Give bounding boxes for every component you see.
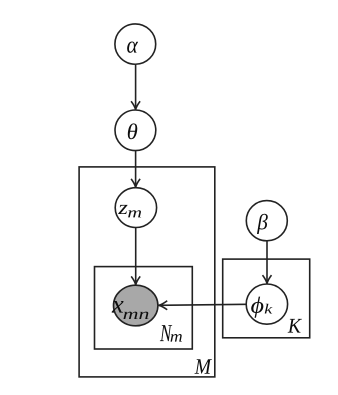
plate M [79, 167, 215, 377]
wire z_m to x_mn [135, 228, 137, 285]
wire alpha to theta [135, 65, 137, 110]
arrowhead into phi_k [263, 275, 272, 283]
node alpha [115, 24, 156, 64]
wire beta to phi_k [266, 241, 268, 283]
node alpha label [127, 42, 138, 53]
node beta label [257, 214, 268, 234]
node beta [246, 201, 287, 241]
wire theta to z_m [135, 151, 137, 187]
arrowhead into z_m [131, 179, 140, 187]
arrowhead into theta [131, 101, 140, 109]
node z_m label subscript m [128, 210, 141, 217]
plate K label K [288, 319, 302, 333]
plate N_m label subscript m [171, 334, 182, 342]
plate M label M [194, 359, 211, 373]
node theta label [128, 123, 137, 139]
wire phi_k to x_mn [159, 304, 246, 305]
plate N_m label N [160, 325, 172, 341]
node x_mn label x [112, 301, 124, 313]
node x_mn (observed, shaded) [114, 285, 158, 326]
arrowhead into x_mn [131, 276, 140, 284]
plate K [223, 259, 310, 338]
plate N_m [95, 267, 193, 349]
node z_m label z [118, 205, 127, 214]
node theta [115, 110, 156, 151]
arrowhead into x_mn [159, 301, 167, 310]
node phi_k [246, 284, 287, 324]
node phi_k label subscript k [265, 304, 273, 314]
node phi_k label phi [251, 297, 263, 318]
node x_mn label subscript mn [123, 312, 148, 319]
node z_m [115, 188, 156, 228]
